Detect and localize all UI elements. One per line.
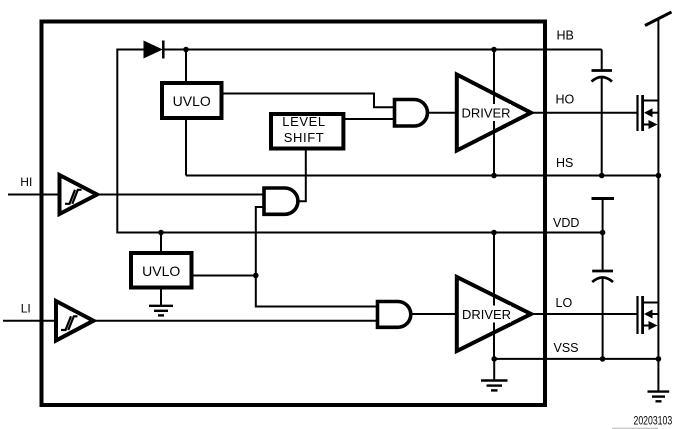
- svg-text:VDD: VDD: [553, 216, 579, 230]
- svg-text:LO: LO: [556, 296, 573, 310]
- svg-text:UVLO: UVLO: [142, 263, 180, 279]
- svg-text:HO: HO: [556, 93, 575, 107]
- svg-text:VSS: VSS: [554, 341, 579, 355]
- svg-text:UVLO: UVLO: [173, 93, 211, 109]
- svg-text:20203103: 20203103: [634, 416, 673, 428]
- svg-text:LEVEL: LEVEL: [282, 114, 325, 129]
- svg-text:DRIVER: DRIVER: [462, 307, 511, 322]
- svg-text:HI: HI: [20, 175, 32, 189]
- svg-text:SHIFT: SHIFT: [284, 130, 325, 145]
- svg-text:HS: HS: [556, 156, 573, 170]
- svg-text:HB: HB: [557, 29, 574, 43]
- svg-text:DRIVER: DRIVER: [461, 106, 510, 121]
- svg-text:LI: LI: [21, 302, 31, 316]
